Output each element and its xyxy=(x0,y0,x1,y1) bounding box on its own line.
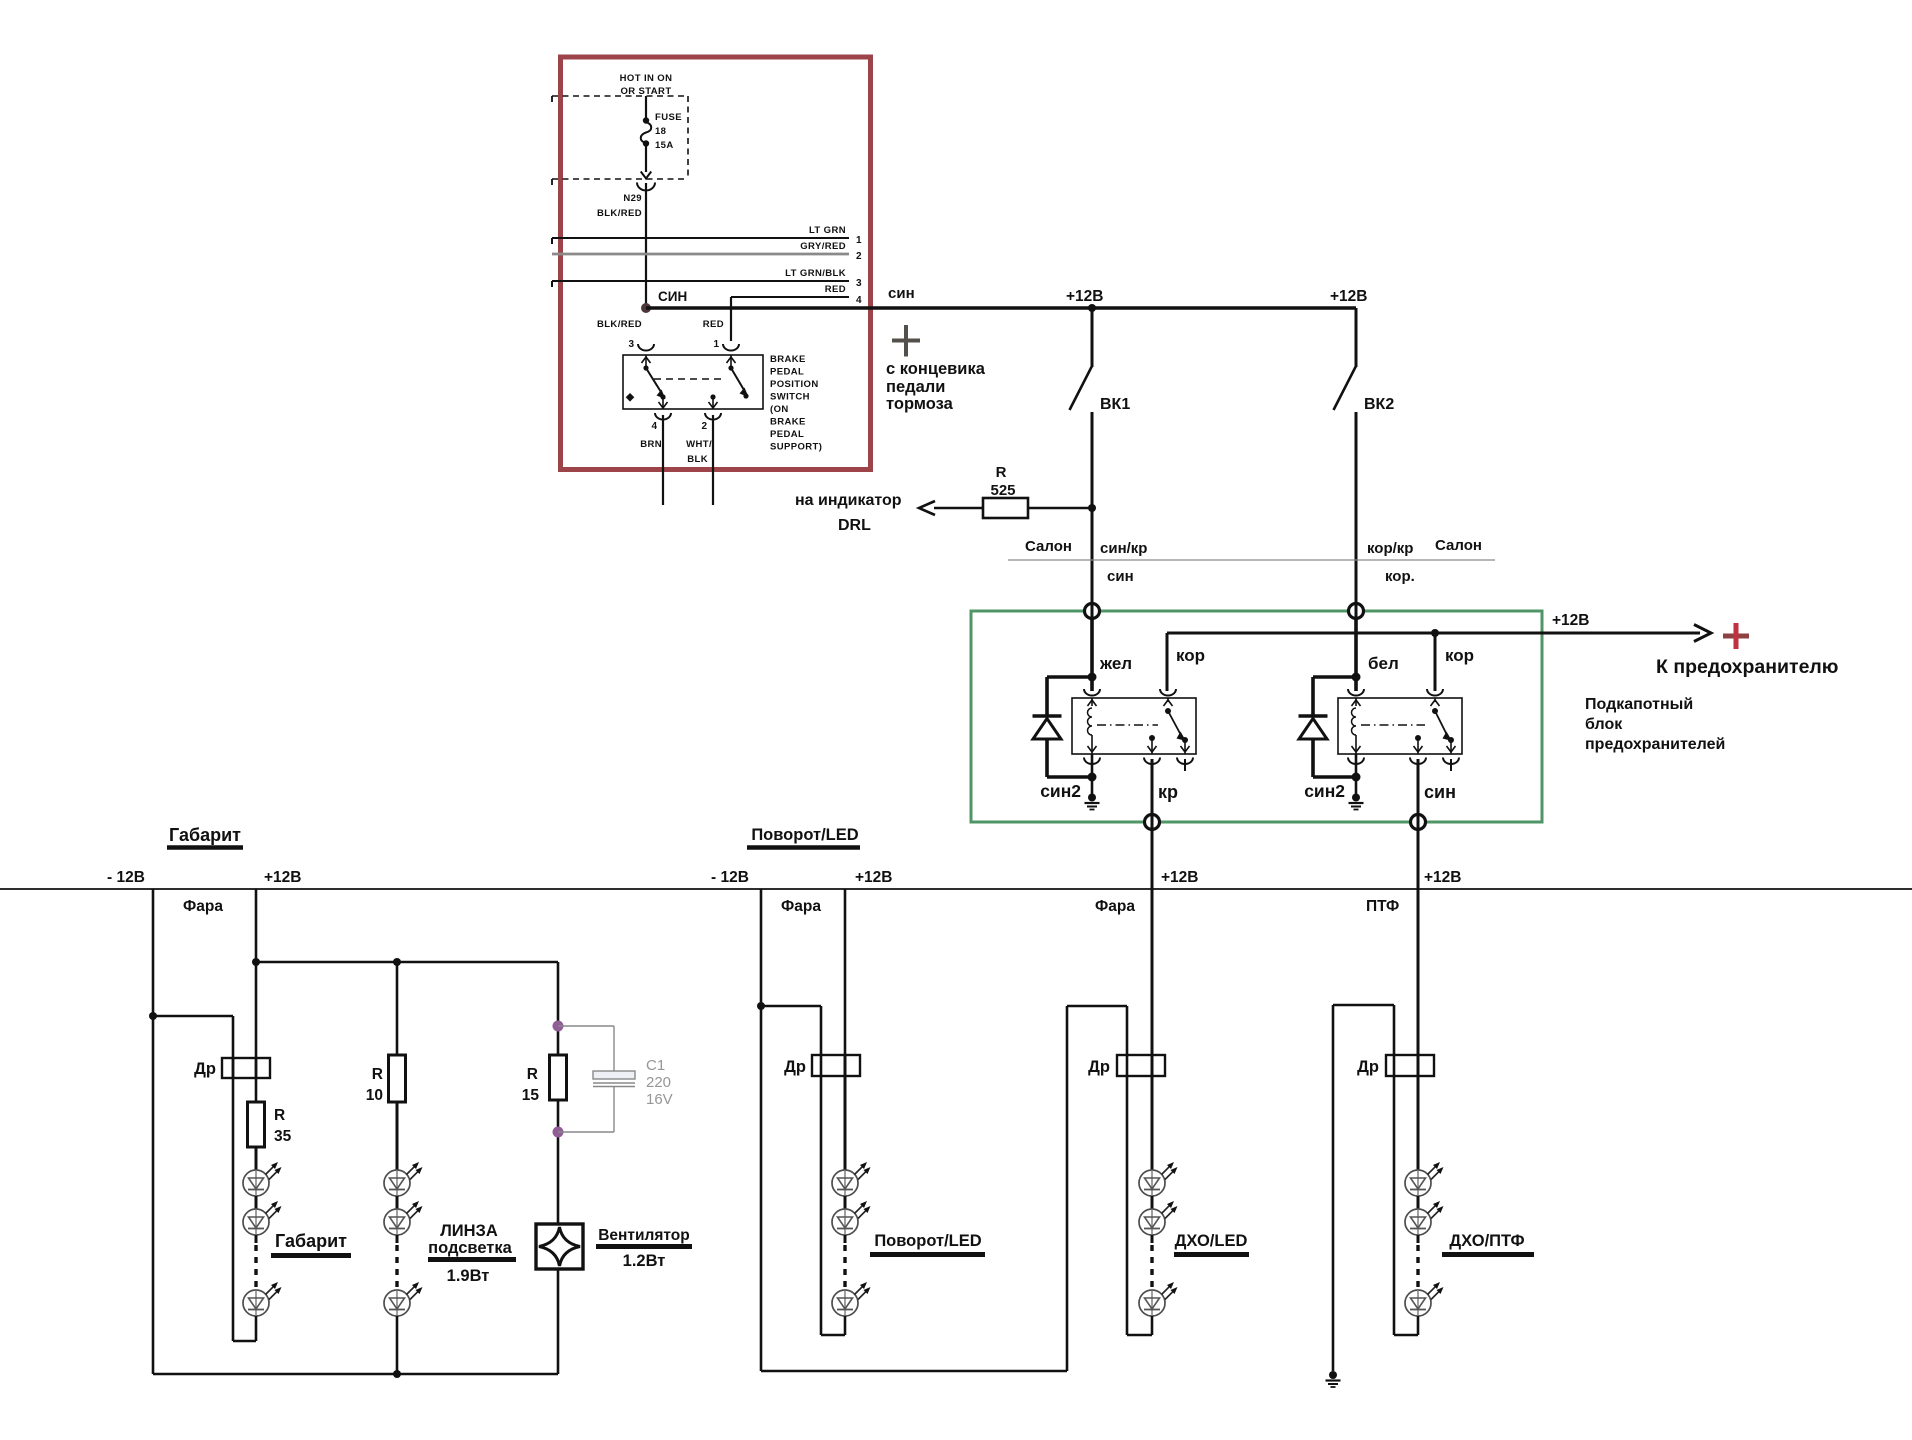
svg-text:на индикатор: на индикатор xyxy=(795,492,902,509)
relay K1 stub wire xyxy=(1184,759,1186,771)
relay K1 box xyxy=(1072,698,1196,754)
svg-text:блок: блок xyxy=(1585,716,1623,733)
pin 3 entry arrow xyxy=(645,355,647,368)
pin 4 exit arrow xyxy=(662,397,664,409)
node габарит branch xyxy=(252,958,260,966)
bottom rail поворот-дхо xyxy=(761,1370,1067,1373)
node C1 bottom (purple) xyxy=(553,1127,564,1138)
svg-text:10: 10 xyxy=(366,1087,383,1104)
resistor R525 xyxy=(983,498,1028,518)
wire син main (node to ВК2 corner) xyxy=(646,306,1356,310)
svg-text:SWITCH: SWITCH xyxy=(770,392,810,403)
pin 3 connector arc xyxy=(638,344,654,351)
svg-text:син2: син2 xyxy=(1040,781,1081,801)
svg-text:(ON: (ON xyxy=(770,404,789,415)
resistor R35 xyxy=(248,1102,265,1147)
switch contact 1 xyxy=(728,365,733,370)
relay K2 stub arc xyxy=(1443,758,1459,765)
switch housing diamond mark xyxy=(626,393,635,402)
wire return top (поворот) xyxy=(761,1005,821,1008)
wire D15 to return xyxy=(1417,1316,1420,1335)
diode K1 xyxy=(1047,675,1092,679)
svg-text:BRAKE: BRAKE xyxy=(770,417,806,428)
wire return bottom (поворот) xyxy=(821,1334,845,1337)
wire return bottom (птф) xyxy=(1394,1334,1418,1337)
svg-text:BRN: BRN xyxy=(640,439,662,450)
svg-text:подсветка: подсветка xyxy=(428,1239,512,1257)
svg-text:Подкапотный: Подкапотный xyxy=(1585,696,1693,713)
relay K1 switch top arc xyxy=(1160,689,1176,696)
plus mark (from brake pedal switch) xyxy=(892,339,920,343)
svg-text:BLK/RED: BLK/RED xyxy=(597,319,642,330)
svg-text:1: 1 xyxy=(856,235,862,246)
LED D4 (линза) xyxy=(384,1162,423,1196)
relay K1 coil xyxy=(1091,698,1093,706)
svg-text:ВК1: ВК1 xyxy=(1100,396,1130,413)
svg-text:3: 3 xyxy=(856,278,862,289)
wire D10-D11 xyxy=(1151,1196,1154,1209)
choke Др (птф) xyxy=(1386,1055,1434,1076)
fuse FUSE 18 15A xyxy=(643,117,649,123)
wire кр out of relay K1 xyxy=(1151,759,1154,821)
svg-text:2: 2 xyxy=(701,421,707,432)
node C1 top (purple) xyxy=(553,1021,564,1032)
svg-text:220: 220 xyxy=(646,1074,671,1091)
pin 1 connector arc xyxy=(723,344,739,351)
wire кр down (дхо supply) xyxy=(1151,829,1154,1055)
bulkhead line (салон/подкапотное) xyxy=(1008,559,1495,561)
wire dashed LED string (поворот) xyxy=(844,1235,847,1243)
svg-text:жел: жел xyxy=(1099,654,1132,673)
svg-text:HOT IN ON: HOT IN ON xyxy=(620,73,673,84)
connector bullseye син xyxy=(1411,815,1426,830)
svg-text:СИН: СИН xyxy=(658,289,687,304)
wire бел xyxy=(1354,618,1358,691)
LED D14 (птф) xyxy=(1405,1201,1444,1235)
svg-text:Салон: Салон xyxy=(1025,538,1072,555)
svg-text:LT GRN/BLK: LT GRN/BLK xyxy=(785,268,846,279)
switch blade left xyxy=(646,368,661,392)
svg-text:Салон: Салон xyxy=(1435,537,1482,554)
wire +12В габарит xyxy=(255,889,258,1058)
relay K1 coil-gnd wire xyxy=(1091,754,1094,794)
LED D1 (габарит) xyxy=(243,1162,282,1196)
node ВК1 top xyxy=(1088,304,1096,312)
ground K2 (син2) xyxy=(1349,794,1364,810)
wire R35 to LEDs xyxy=(255,1147,258,1170)
brake-switch circuit frame (red box) xyxy=(561,57,871,470)
bottom rail габарит xyxy=(153,1373,558,1376)
svg-text:BLK/RED: BLK/RED xyxy=(597,208,642,219)
wire return top (птф) xyxy=(1333,1004,1394,1007)
wire R15 branch xyxy=(557,962,560,1055)
pin 2 exit arrow xyxy=(712,397,714,409)
wire 4 RED xyxy=(731,296,849,298)
wire return vertical left (дхо) xyxy=(1066,1006,1069,1371)
LED D15 (птф) xyxy=(1405,1282,1444,1316)
node bottom rail xyxy=(393,1370,401,1378)
svg-text:DRL: DRL xyxy=(838,517,871,534)
LED D13 (птф) xyxy=(1405,1162,1444,1196)
svg-text:4: 4 xyxy=(856,295,862,306)
LED D7 (поворот) xyxy=(832,1162,871,1196)
plus mark (к предохранителю) xyxy=(1723,634,1749,639)
wire +12В bus xyxy=(1167,632,1356,635)
wire 2 GRY/RED xyxy=(552,253,849,256)
ground (птф return) xyxy=(1326,1371,1341,1387)
wire -12В габарит xyxy=(152,889,155,1374)
LED D12 (дхо) xyxy=(1139,1282,1178,1316)
svg-text:LT GRN: LT GRN xyxy=(809,225,846,236)
svg-text:15A: 15A xyxy=(655,140,674,151)
wire кор to relay1 xyxy=(1166,633,1169,691)
ground K1 (син2) xyxy=(1085,794,1100,810)
svg-text:1.2Вт: 1.2Вт xyxy=(623,1252,666,1270)
wire return bottom (дхо) xyxy=(1127,1334,1152,1337)
svg-text:15: 15 xyxy=(522,1087,540,1104)
wire D3 to return xyxy=(255,1316,258,1341)
svg-text:Др: Др xyxy=(1088,1058,1110,1076)
svg-text:Вентилятор: Вентилятор xyxy=(598,1227,690,1244)
wire return left vertical (птф) xyxy=(1332,1005,1335,1371)
svg-text:16V: 16V xyxy=(646,1091,673,1108)
relay K2 switch top arc xyxy=(1427,689,1443,696)
LED D3 (габарит) xyxy=(243,1282,282,1316)
svg-text:Фара: Фара xyxy=(781,898,821,915)
svg-text:+12В: +12В xyxy=(1424,869,1462,886)
relay K2 box xyxy=(1338,698,1462,754)
svg-text:RED: RED xyxy=(825,284,846,295)
svg-text:525: 525 xyxy=(990,482,1015,499)
svg-text:Габарит: Габарит xyxy=(169,825,241,845)
relay K1 switch xyxy=(1167,698,1169,702)
svg-text:Поворот/LED: Поворот/LED xyxy=(874,1232,981,1250)
choke Др (габарит) xyxy=(222,1058,270,1078)
switch coupling dashed line xyxy=(654,378,726,380)
node R525-ВК1 xyxy=(1088,504,1096,512)
wire D6 to rail xyxy=(396,1316,399,1374)
svg-text:- 12В: - 12В xyxy=(107,869,145,886)
relay K1 bottom node xyxy=(1088,773,1097,782)
wire -12В поворот xyxy=(760,889,763,1371)
svg-text:R: R xyxy=(527,1066,538,1083)
svg-text:кор: кор xyxy=(1445,646,1474,665)
LED D8 (поворот) xyxy=(832,1201,871,1235)
svg-text:1: 1 xyxy=(713,339,719,350)
svg-text:35: 35 xyxy=(274,1128,292,1145)
connector N29 (arc) xyxy=(637,183,655,191)
relay K2 coil-gnd wire xyxy=(1355,754,1358,794)
svg-text:предохранителей: предохранителей xyxy=(1585,736,1725,753)
wire fuse top xyxy=(645,96,647,118)
node кор bus xyxy=(1431,629,1439,637)
wire жел xyxy=(1090,618,1094,691)
svg-text:Поворот/LED: Поворот/LED xyxy=(751,826,858,844)
wire return bottom xyxy=(233,1340,256,1343)
svg-text:BLK: BLK xyxy=(687,454,708,465)
wire BLK/RED down to node xyxy=(645,183,647,306)
svg-text:+12В: +12В xyxy=(1066,288,1104,305)
wire return top (дхо) xyxy=(1067,1005,1127,1008)
underhood fuse box frame (green box) xyxy=(971,611,1542,822)
pin 4 connector arc xyxy=(655,413,671,420)
LED D10 (дхо) xyxy=(1139,1162,1178,1196)
wire BRN pin4 xyxy=(662,415,664,505)
connector bullseye кр xyxy=(1145,815,1160,830)
wire dashed LED string (габарит) xyxy=(255,1235,258,1243)
connector bullseye ВК2-бел xyxy=(1349,604,1364,619)
svg-text:SUPPORT): SUPPORT) xyxy=(770,442,822,453)
wire R10 to LEDs xyxy=(396,1102,399,1170)
wire D9 to return xyxy=(844,1316,847,1335)
svg-text:ДХО/ПТФ: ДХО/ПТФ xyxy=(1449,1232,1524,1250)
switch blade right xyxy=(731,368,744,390)
relay K2 coil bottom arc xyxy=(1348,758,1364,765)
svg-text:Др: Др xyxy=(1357,1058,1379,1076)
svg-text:с концевика: с концевика xyxy=(886,360,986,378)
svg-text:син2: син2 xyxy=(1304,781,1345,801)
svg-text:кор: кор xyxy=(1176,646,1205,665)
brake pedal switch box xyxy=(623,355,763,409)
pin 2 connector arc xyxy=(705,413,721,420)
node -12В габарит xyxy=(149,1012,157,1020)
relay K1 sw-bottom arc xyxy=(1144,758,1160,765)
switch contact 4 xyxy=(660,394,665,399)
relay K2 coil xyxy=(1355,698,1357,706)
svg-text:WHT/: WHT/ xyxy=(686,439,712,450)
relay K1 coil top arc xyxy=(1084,689,1100,696)
svg-text:+12В: +12В xyxy=(1330,288,1368,305)
wire dashed LED string (птф) xyxy=(1417,1235,1420,1243)
wire 3 LT GRN/BLK xyxy=(552,280,849,282)
svg-text:Др: Др xyxy=(194,1060,216,1078)
choke wires through box xyxy=(232,1058,235,1078)
svg-text:Фара: Фара xyxy=(183,898,223,915)
svg-text:PEDAL: PEDAL xyxy=(770,429,804,440)
pin 1 entry arrow xyxy=(730,355,732,368)
relay K1 top node xyxy=(1088,673,1097,682)
svg-text:ДХО/LED: ДХО/LED xyxy=(1175,1232,1248,1250)
svg-text:RED: RED xyxy=(703,319,724,330)
capacitor C1 xyxy=(558,1025,614,1027)
svg-text:педали: педали xyxy=(886,378,945,396)
svg-text:4: 4 xyxy=(651,421,657,432)
svg-text:BRAKE: BRAKE xyxy=(770,354,806,365)
relay K2 top node xyxy=(1352,673,1361,682)
svg-text:GRY/RED: GRY/RED xyxy=(800,241,846,252)
relay K2 stub wire xyxy=(1450,759,1452,771)
svg-text:R: R xyxy=(372,1066,383,1083)
LED D6 (линза) xyxy=(384,1282,423,1316)
wire to R10/R15 branches xyxy=(256,961,558,964)
svg-text:тормоза: тормоза xyxy=(886,395,954,413)
fuse box (dashed outline) xyxy=(552,95,688,97)
relay K2 sw-bottom arc xyxy=(1410,758,1426,765)
svg-text:син: син xyxy=(888,285,915,302)
svg-text:син: син xyxy=(1107,568,1134,585)
fan Вентилятор xyxy=(536,1224,583,1269)
relay K2 bottom node xyxy=(1352,773,1361,782)
svg-text:Фара: Фара xyxy=(1095,898,1135,915)
wire 1 LT GRN xyxy=(552,237,849,239)
choke wires (птф) xyxy=(1393,1055,1396,1076)
svg-text:2: 2 xyxy=(856,251,862,262)
relay K2 switch xyxy=(1434,698,1436,702)
arrow to DRL indicator xyxy=(934,507,983,510)
node R10 branch xyxy=(393,958,401,966)
wire D7-D8 xyxy=(844,1196,847,1209)
headlight boundary line xyxy=(0,888,1912,890)
switch contact 2 xyxy=(710,394,715,399)
svg-text:Габарит: Габарит xyxy=(275,1231,347,1251)
LED D5 (линза) xyxy=(384,1201,423,1235)
wire fuse to arrow xyxy=(645,146,647,172)
wire fan to rail xyxy=(557,1269,560,1374)
switch ВК2 xyxy=(1355,308,1358,367)
relay K1 dash-dot link xyxy=(1097,724,1158,726)
svg-text:син: син xyxy=(1424,782,1456,802)
wire dashed LED string (линза) xyxy=(396,1235,399,1243)
svg-text:PEDAL: PEDAL xyxy=(770,367,804,378)
switch contact 3 xyxy=(643,365,648,370)
relay K2 dash-dot link xyxy=(1361,724,1425,726)
diode K2 xyxy=(1313,675,1356,679)
svg-text:кор.: кор. xyxy=(1385,568,1415,585)
connector bullseye ВК1-жел xyxy=(1085,604,1100,619)
svg-text:кр: кр xyxy=(1158,782,1178,802)
svg-text:кор/кр: кор/кр xyxy=(1367,540,1413,557)
svg-text:+12В: +12В xyxy=(1552,612,1590,629)
relay K1 stub arc xyxy=(1177,758,1193,765)
wire D12 to return xyxy=(1151,1316,1154,1335)
wire R15 to C1 bottom node xyxy=(557,1100,560,1224)
svg-text:FUSE: FUSE xyxy=(655,112,682,123)
wire dashed LED string (дхо) xyxy=(1151,1235,1154,1243)
arrow +12В to fuse xyxy=(1694,625,1711,642)
svg-text:18: 18 xyxy=(655,126,666,137)
svg-text:3: 3 xyxy=(628,339,634,350)
wire D13-D14 xyxy=(1417,1196,1420,1209)
svg-text:1.9Вт: 1.9Вт xyxy=(447,1267,490,1285)
wire return vertical (поворот) xyxy=(820,1006,823,1335)
svg-text:ЛИНЗА: ЛИНЗА xyxy=(440,1222,498,1240)
node СИН (junction dot) xyxy=(641,303,651,313)
svg-text:+12В: +12В xyxy=(264,869,302,886)
wire син down (птф supply) xyxy=(1417,829,1420,1055)
svg-text:C1: C1 xyxy=(646,1057,665,1074)
wire return vertical xyxy=(232,1016,235,1341)
wire R10 branch xyxy=(396,962,399,1055)
wire +12В поворот xyxy=(844,889,847,1055)
wire WHT/BLK pin2 xyxy=(712,415,714,505)
wire кор to relay2 xyxy=(1434,633,1437,691)
choke wires (дхо) xyxy=(1126,1055,1129,1076)
resistor R15 xyxy=(550,1055,567,1100)
svg-text:+12В: +12В xyxy=(855,869,893,886)
LED D2 (габарит) xyxy=(243,1201,282,1235)
svg-text:POSITION: POSITION xyxy=(770,379,819,390)
svg-text:N29: N29 xyxy=(623,193,642,204)
svg-text:ВК2: ВК2 xyxy=(1364,396,1394,413)
arrow into dashed box edge xyxy=(641,172,652,179)
choke Др (дхо) xyxy=(1117,1055,1165,1076)
wire return mid vertical (птф) xyxy=(1393,1005,1396,1335)
svg-text:К предохранителю: К предохранителю xyxy=(1656,656,1838,678)
svg-text:+12В: +12В xyxy=(1161,869,1199,886)
relay K2 coil top arc xyxy=(1348,689,1364,696)
choke Др (поворот) xyxy=(812,1055,860,1076)
svg-text:ПТФ: ПТФ xyxy=(1366,898,1399,915)
resistor R10 xyxy=(389,1055,406,1102)
svg-text:R: R xyxy=(274,1107,285,1124)
node -12В поворот xyxy=(757,1002,765,1010)
wire D4-D5 xyxy=(396,1196,399,1209)
wire return mid vertical (дхо) xyxy=(1126,1006,1129,1335)
svg-text:R: R xyxy=(996,464,1007,481)
wire син out of relay K2 xyxy=(1417,759,1420,821)
LED D11 (дхо) xyxy=(1139,1201,1178,1235)
svg-text:Др: Др xyxy=(784,1058,806,1076)
svg-text:- 12В: - 12В xyxy=(711,869,749,886)
wire RED down to pin 1 xyxy=(730,297,732,341)
svg-text:син/кр: син/кр xyxy=(1100,540,1147,557)
svg-text:бел: бел xyxy=(1368,654,1399,673)
wire D1-D2 xyxy=(255,1196,258,1209)
relay K1 coil bottom arc xyxy=(1084,758,1100,765)
wire return top xyxy=(153,1015,233,1018)
LED D9 (поворот) xyxy=(832,1282,871,1316)
switch ВК1 xyxy=(1091,308,1094,367)
